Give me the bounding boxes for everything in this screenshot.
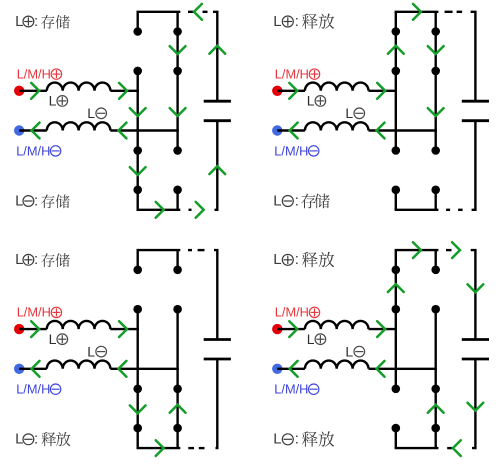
wire capacitor bottom lead (Q1) <box>215 121 218 210</box>
svg-text::: : <box>295 431 299 448</box>
wire top rail (Q3) <box>137 249 181 251</box>
wire inductor L⊕ to left branch (Q1) <box>110 90 138 92</box>
wire red terminal to inductor L⊕ (Q3) <box>19 328 47 330</box>
svg-text:L: L <box>345 343 353 359</box>
current arrow right on bottom rail (Q1) <box>156 202 164 218</box>
dashed wire segment top rail to capacitor (Q3) <box>188 249 192 251</box>
current arrow on capacitor bottom lead (Q4) <box>468 403 484 411</box>
current arrow right on L⊕ input wire (Q4) <box>289 321 297 337</box>
switch contact dot (Q2 left branch lower B) <box>392 186 401 195</box>
switch contact dot (Q2 left branch lower A) <box>392 146 401 155</box>
wire bottom rail (Q3) <box>137 447 181 449</box>
net label "L/M/H⊖" negative input (Q3) <box>16 382 61 397</box>
current arrow right on L⊕ input wire (Q1) <box>31 83 39 99</box>
current arrow right on L⊕ input wire (Q3) <box>31 321 39 337</box>
current arrow left toward blue terminal (Q3) <box>32 361 40 377</box>
value label "L⊖" above inductor (Q1) <box>87 105 106 121</box>
switch contact dot (Q2 middle branch upper B) <box>431 67 440 76</box>
switch contact dot (Q1 left branch lower B) <box>133 186 142 195</box>
terminal L/M/H⊕ (red node, Q4) <box>272 324 282 334</box>
terminal L/M/H⊖ (blue node, Q2) <box>272 125 282 135</box>
net label "L/M/H⊕" positive input (Q1) <box>17 66 62 81</box>
dashed wire segment bottom rail to capacitor (Q1) <box>189 209 192 211</box>
value label "L⊕" below inductor (Q3) <box>49 331 68 347</box>
wire inductor L⊖ to middle branch (Q1) <box>110 129 178 131</box>
wire blue terminal to inductor L⊖ (Q1) <box>19 129 47 131</box>
current arrow on left branch lower switch (Q1) <box>130 167 146 175</box>
wire middle branch down to L⊖ tee (Q1) <box>176 71 178 131</box>
net label "L/M/H⊕" positive input (Q4) <box>275 305 320 320</box>
capacitor C (upper plate, Q1) <box>204 100 231 103</box>
switch contact dot (Q1 left branch upper B) <box>133 67 142 76</box>
wire red terminal to inductor L⊕ (Q1) <box>19 90 47 92</box>
current arrow on dashed bottom wire (Q4) <box>453 440 461 456</box>
wire capacitor top lead (Q2) <box>471 12 476 101</box>
wire top rail (Q1) <box>137 11 181 13</box>
switch contact dot (Q3 left branch upper B) <box>133 305 142 314</box>
net label "L/M/H⊖" negative input (Q1) <box>16 143 61 158</box>
closed switch wire (Q3 middle branch lower) <box>176 389 178 428</box>
switch contact dot (Q2 left branch upper A) <box>392 27 401 36</box>
closed switch wire (Q2 left branch upper) <box>395 32 397 71</box>
inductor L⊖ (Q1) <box>47 122 111 130</box>
switch contact dot (Q4 left branch upper A) <box>392 266 401 275</box>
svg-text:L: L <box>87 343 95 359</box>
switch contact dot (Q3 left branch upper A) <box>133 266 142 275</box>
wire stub switch contact to bottom rail (Q4 middle branch) <box>435 428 437 448</box>
node label "L⊕: 存储" (Q3 top state) <box>15 251 70 268</box>
net label "L/M/H⊖" negative input (Q2) <box>274 143 319 158</box>
node label "L⊖: 释放" (Q3 bottom state) <box>15 431 70 448</box>
wire stub top rail to switch contact (Q3 left branch) <box>136 250 138 270</box>
wire middle branch down to L⊖ tee (Q2) <box>435 71 437 131</box>
wire inductor L⊖ to middle branch (Q2) <box>369 129 437 131</box>
svg-text::: : <box>295 251 299 268</box>
current arrow right after inductor L⊕ (Q3) <box>119 321 127 337</box>
wire red terminal to inductor L⊕ (Q2) <box>277 90 305 92</box>
dashed wire segment bottom rail to capacitor (Q2) <box>458 209 463 211</box>
wire bottom rail (Q4) <box>395 447 439 449</box>
terminal L/M/H⊖ (blue node, Q4) <box>272 364 282 374</box>
current arrow on dashed top wire (Q4) <box>452 242 460 258</box>
current arrow on capacitor top lead (Q4) <box>468 284 484 292</box>
switch contact dot (Q3 middle branch lower B) <box>173 424 182 433</box>
svg-text:L: L <box>307 93 315 109</box>
wire stub switch contact to bottom rail (Q2 middle branch) <box>435 190 437 210</box>
current arrow right on bottom rail (Q3) <box>156 440 164 456</box>
svg-text:L/M/H: L/M/H <box>16 143 50 158</box>
switch contact dot (Q2 middle branch lower A) <box>431 146 440 155</box>
dashed wire segment top rail to capacitor (Q3) <box>198 249 205 251</box>
current arrow on middle branch upper switch (Q2) <box>428 46 444 54</box>
value label "L⊕" below inductor (Q1) <box>49 93 68 109</box>
current arrow left after middle branch on L⊖ wire (Q4) <box>377 361 385 377</box>
dashed wire segment top rail to capacitor (Q1) <box>188 11 194 13</box>
svg-text:L/M/H: L/M/H <box>274 382 308 397</box>
current arrow right after inductor L⊕ (Q2) <box>377 83 385 99</box>
dashed wire segment top rail to capacitor (Q2) <box>445 11 453 13</box>
current arrow on left branch upper switch (Q2) <box>388 46 404 54</box>
svg-text:L: L <box>15 251 23 268</box>
inductor L⊖ (Q3) <box>47 361 111 369</box>
inductor L⊕ (Q3) <box>47 321 111 329</box>
node label "L⊕: 释放" (Q4 top state) <box>273 251 334 268</box>
svg-text:L/M/H: L/M/H <box>275 66 309 81</box>
switch contact dot (Q3 middle branch upper A) <box>173 266 182 275</box>
wire blue terminal to inductor L⊖ (Q4) <box>277 368 305 370</box>
svg-text:L: L <box>273 251 281 268</box>
node label "L⊖: 存储" (Q1 bottom state) <box>15 192 70 209</box>
wire stub top rail to switch contact (Q1 left branch) <box>136 12 138 32</box>
wire capacitor bottom lead (Q2) <box>472 121 476 210</box>
capacitor C (lower plate, Q4) <box>462 358 489 361</box>
current arrow on middle branch upper switch (Q1) <box>170 46 186 54</box>
wire stub switch contact to bottom rail (Q3 left branch) <box>136 428 138 448</box>
inductor L⊖ (Q4) <box>305 361 369 369</box>
wire middle branch L⊖ tee to lower contact (Q2) <box>435 131 437 151</box>
terminal L/M/H⊖ (blue node, Q1) <box>14 125 24 135</box>
wire inductor L⊕ to left branch (Q3) <box>110 328 138 330</box>
svg-text::: : <box>295 13 299 30</box>
wire bottom rail (Q2) <box>395 209 439 211</box>
value label "L⊕" below inductor (Q2) <box>307 93 326 109</box>
net label "L/M/H⊕" positive input (Q2) <box>275 66 320 81</box>
wire bottom rail (Q1) <box>137 209 181 211</box>
capacitor C (upper plate, Q2) <box>462 100 489 103</box>
dashed wire segment bottom rail to capacitor (Q4) <box>447 447 452 449</box>
current arrow right on top rail (Q2) <box>413 4 421 20</box>
wire stub top rail to switch contact (Q3 middle branch) <box>176 250 178 270</box>
wire stub switch contact to bottom rail (Q2 left branch) <box>395 190 397 210</box>
wire top rail (Q2) <box>395 11 439 13</box>
net label "L/M/H⊖" negative input (Q4) <box>274 382 319 397</box>
value label "L⊖" above inductor (Q4) <box>345 343 364 359</box>
inductor L⊕ (Q4) <box>305 321 369 329</box>
svg-text:L: L <box>87 105 95 121</box>
wire inductor L⊕ to left branch (Q2) <box>369 90 398 92</box>
svg-text:L/M/H: L/M/H <box>275 305 309 320</box>
terminal L/M/H⊕ (red node, Q1) <box>14 86 24 96</box>
current arrow left toward blue terminal (Q4) <box>290 361 298 377</box>
switch contact dot (Q3 middle branch lower A) <box>173 385 182 394</box>
switch contact dot (Q3 left branch lower A) <box>133 385 142 394</box>
closed switch wire (Q4 left branch upper) <box>395 270 397 309</box>
current arrow down on left branch (Q1) <box>130 108 146 116</box>
wire top rail (Q4) <box>395 249 439 251</box>
svg-text::: : <box>34 13 38 30</box>
wire inductor L⊖ to middle branch (Q4) <box>369 368 437 370</box>
wire left branch through L⊕ junction down to lower contact (Q1) <box>136 71 138 151</box>
svg-text:L: L <box>273 192 281 209</box>
switch contact dot (Q4 middle branch lower B) <box>431 424 440 433</box>
terminal L/M/H⊕ (red node, Q2) <box>272 86 282 96</box>
closed switch wire (Q2 middle branch upper) <box>435 32 437 71</box>
wire middle branch L⊖ tee to lower contact (Q1) <box>176 131 178 151</box>
terminal L/M/H⊕ (red node, Q3) <box>14 324 24 334</box>
switch contact dot (Q4 middle branch lower A) <box>431 385 440 394</box>
switch contact dot (Q4 middle branch upper B) <box>431 305 440 314</box>
current arrow right on L⊕ input wire (Q2) <box>289 83 297 99</box>
svg-text:L: L <box>15 431 23 448</box>
svg-text:L/M/H: L/M/H <box>16 382 50 397</box>
svg-text::: : <box>295 192 299 209</box>
svg-text:L: L <box>15 192 23 209</box>
current arrow on left branch upper switch (Q4) <box>388 284 404 292</box>
value label "L⊖" above inductor (Q2) <box>345 105 364 121</box>
svg-text:L: L <box>307 331 315 347</box>
switch contact dot (Q2 left branch upper B) <box>392 67 401 76</box>
wire middle branch down to L⊖ tee (Q4) <box>435 309 437 369</box>
dashed wire segment top rail to capacitor (Q2) <box>457 11 463 13</box>
wire middle branch L⊖ tee to lower contact (Q3) <box>176 369 178 389</box>
node label "L⊕: 释放" (Q2 top state) <box>273 13 334 30</box>
wire capacitor top lead (Q3) <box>214 250 217 339</box>
wire stub switch contact to bottom rail (Q1 middle branch) <box>176 190 178 210</box>
wire middle branch L⊖ tee to lower contact (Q4) <box>435 369 437 389</box>
wire capacitor top lead (Q1) <box>213 12 217 101</box>
svg-text::: : <box>34 431 38 448</box>
wire red terminal to inductor L⊕ (Q4) <box>277 328 305 330</box>
capacitor C (lower plate, Q3) <box>204 358 231 361</box>
svg-text:L: L <box>49 331 57 347</box>
wire blue terminal to inductor L⊖ (Q3) <box>19 368 47 370</box>
closed switch wire (Q1 middle branch upper) <box>176 32 178 71</box>
wire capacitor top lead (Q4) <box>471 250 476 339</box>
capacitor C (upper plate, Q4) <box>462 338 489 341</box>
switch contact dot (Q1 left branch lower A) <box>133 146 142 155</box>
wire left branch through L⊕ junction down to lower contact (Q3) <box>136 309 138 389</box>
inductor L⊖ (Q2) <box>305 122 369 130</box>
svg-text:L: L <box>273 13 281 30</box>
current arrow down on middle branch (Q2) <box>428 108 444 116</box>
wire capacitor bottom lead (Q4) <box>472 359 475 448</box>
capacitor C (lower plate, Q2) <box>462 119 489 122</box>
current arrow left after middle branch on L⊖ wire (Q3) <box>119 361 127 377</box>
value label "L⊖" above inductor (Q3) <box>87 343 106 359</box>
wire middle branch down to L⊖ tee (Q3) <box>176 309 178 369</box>
wire stub top rail to switch contact (Q2 left branch) <box>395 12 397 32</box>
current arrow left toward blue terminal (Q1) <box>32 123 40 139</box>
current arrow left after middle branch on L⊖ wire (Q1) <box>119 123 127 139</box>
current arrow on middle branch lower switch (Q3) <box>170 405 186 413</box>
switch contact dot (Q1 middle branch lower B) <box>173 186 182 195</box>
switch contact dot (Q2 middle branch lower B) <box>431 186 440 195</box>
wire left branch through L⊕ junction down to lower contact (Q2) <box>395 71 397 151</box>
switch contact dot (Q1 middle branch upper A) <box>173 27 182 36</box>
dashed wire segment top rail to capacitor (Q1) <box>203 11 208 13</box>
dashed wire segment bottom rail to capacitor (Q3) <box>199 447 205 449</box>
value label "L⊕" below inductor (Q4) <box>307 331 326 347</box>
closed switch wire (Q4 middle branch lower) <box>435 389 437 428</box>
current arrow right on top rail (Q4) <box>413 242 421 258</box>
closed switch wire (Q1 left branch lower) <box>136 151 138 190</box>
current arrow on dashed bottom wire (Q1) <box>196 202 204 218</box>
svg-text:L: L <box>15 13 23 30</box>
switch contact dot (Q3 middle branch upper B) <box>173 305 182 314</box>
switch contact dot (Q1 middle branch lower A) <box>173 146 182 155</box>
current arrow down on middle branch (Q1) <box>170 108 186 116</box>
wire stub switch contact to bottom rail (Q4 left branch) <box>395 428 397 448</box>
switch contact dot (Q4 left branch lower B) <box>392 424 401 433</box>
inductor L⊕ (Q1) <box>47 83 111 91</box>
wire stub switch contact to bottom rail (Q3 middle branch) <box>176 428 178 448</box>
svg-text:L: L <box>345 105 353 121</box>
switch contact dot (Q3 left branch lower B) <box>133 424 142 433</box>
inductor L⊕ (Q2) <box>305 83 369 91</box>
svg-text:L: L <box>273 431 281 448</box>
terminal L/M/H⊖ (blue node, Q3) <box>14 364 24 374</box>
closed switch wire (Q3 left branch lower) <box>136 389 138 428</box>
wire inductor L⊕ to left branch (Q4) <box>369 328 398 330</box>
current arrow on capacitor top lead (Q1) <box>209 46 225 54</box>
dashed wire segment bottom rail to capacitor (Q3) <box>188 447 194 449</box>
svg-text::: : <box>34 192 38 209</box>
current arrow on dashed top wire (Q1) <box>194 4 202 20</box>
wire blue terminal to inductor L⊖ (Q2) <box>277 129 305 131</box>
node label "L⊖: 释放" (Q4 bottom state) <box>273 431 334 448</box>
svg-text:L/M/H: L/M/H <box>17 66 51 81</box>
wire stub top rail to switch contact (Q2 middle branch) <box>435 12 437 32</box>
svg-text:L/M/H: L/M/H <box>274 143 308 158</box>
current arrow on middle branch lower switch (Q4) <box>428 405 444 413</box>
wire stub switch contact to bottom rail (Q1 left branch) <box>136 190 138 210</box>
switch contact dot (Q1 middle branch upper B) <box>173 67 182 76</box>
node label "L⊕: 存储" (Q1 top state) <box>15 13 70 30</box>
capacitor C (upper plate, Q3) <box>204 338 231 341</box>
current arrow left after middle branch on L⊖ wire (Q2) <box>377 123 385 139</box>
wire left branch through L⊕ junction down to lower contact (Q4) <box>395 309 397 389</box>
capacitor C (lower plate, Q1) <box>204 119 231 122</box>
current arrow right after inductor L⊕ (Q4) <box>377 321 385 337</box>
wire stub top rail to switch contact (Q4 middle branch) <box>435 250 437 270</box>
svg-text::: : <box>34 251 38 268</box>
current arrow right after inductor L⊕ (Q1) <box>119 83 127 99</box>
current arrow left toward blue terminal (Q2) <box>290 123 298 139</box>
dashed wire segment top rail to capacitor (Q4) <box>446 249 452 251</box>
switch contact dot (Q4 left branch upper B) <box>392 305 401 314</box>
node label "L⊖: 存储" (Q2 bottom state) <box>273 192 330 209</box>
svg-text:L: L <box>49 93 57 109</box>
switch contact dot (Q4 left branch lower A) <box>392 385 401 394</box>
wire capacitor bottom lead (Q3) <box>216 359 218 448</box>
dashed wire segment bottom rail to capacitor (Q2) <box>446 209 450 211</box>
switch contact dot (Q4 middle branch upper A) <box>431 266 440 275</box>
switch contact dot (Q2 middle branch upper A) <box>431 27 440 36</box>
current arrow on capacitor bottom lead (Q1) <box>209 166 225 174</box>
wire stub top rail to switch contact (Q1 middle branch) <box>176 12 178 32</box>
wire stub top rail to switch contact (Q4 left branch) <box>395 250 397 270</box>
current arrow on left branch lower switch (Q3) <box>130 405 146 413</box>
svg-text:L/M/H: L/M/H <box>17 305 51 320</box>
switch contact dot (Q1 left branch upper A) <box>133 27 142 36</box>
wire inductor L⊖ to middle branch (Q3) <box>110 368 178 370</box>
net label "L/M/H⊕" positive input (Q3) <box>17 305 62 320</box>
